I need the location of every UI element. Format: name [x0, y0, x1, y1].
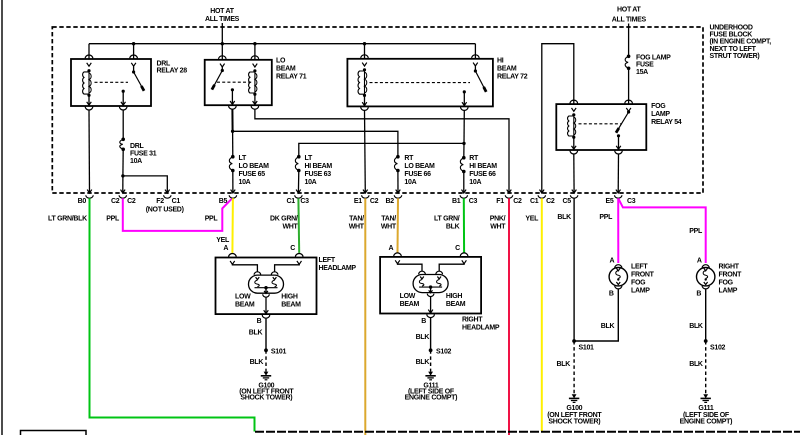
- svg-text:BLK: BLK: [416, 334, 430, 341]
- relay K71 switch terminal (top): [219, 56, 227, 59]
- fuse F31: DRL FUSE 31 10A: [121, 138, 125, 142]
- svg-text:HI BEAM: HI BEAM: [305, 163, 333, 170]
- pin B0: [87, 190, 92, 193]
- relay K54 switch: [627, 110, 630, 113]
- node: high-beam distribution junction: [462, 142, 465, 145]
- pin C1|C3: [296, 190, 301, 193]
- svg-text:BLK: BLK: [689, 323, 703, 330]
- node: splice S101 (fog circuit): [572, 339, 576, 343]
- wire: left headlamp B BLK to S101: [265, 319, 267, 351]
- svg-text:FUSE 66: FUSE 66: [404, 171, 431, 178]
- svg-text:LAMP: LAMP: [651, 111, 670, 118]
- svg-text:LEFT: LEFT: [319, 257, 336, 264]
- svg-text:10A: 10A: [404, 179, 416, 186]
- svg-text:B2: B2: [385, 198, 394, 205]
- svg-text:UNDERHOOD: UNDERHOOD: [710, 25, 753, 32]
- svg-text:ALL TIMES: ALL TIMES: [612, 17, 647, 24]
- svg-text:15A: 15A: [636, 69, 648, 76]
- svg-text:FUSE 66: FUSE 66: [469, 171, 496, 178]
- svg-text:C: C: [455, 245, 460, 252]
- wire: HI relay coil to pin E1: [364, 110, 367, 193]
- svg-text:WHT: WHT: [349, 224, 365, 231]
- svg-text:DRL: DRL: [157, 60, 172, 67]
- svg-text:LO BEAM: LO BEAM: [239, 163, 270, 170]
- svg-text:RELAY 72: RELAY 72: [497, 74, 528, 81]
- svg-text:BEAM: BEAM: [446, 301, 466, 308]
- svg-text:BEAM: BEAM: [276, 66, 296, 73]
- svg-text:(IN ENGINE COMPT,: (IN ENGINE COMPT,: [710, 39, 772, 46]
- svg-text:LO: LO: [276, 58, 286, 65]
- svg-text:NEXT TO LEFT: NEXT TO LEFT: [710, 46, 757, 53]
- svg-text:FRONT: FRONT: [631, 271, 655, 278]
- svg-text:C1: C1: [287, 198, 296, 205]
- svg-text:SHOCK TOWER): SHOCK TOWER): [548, 418, 600, 425]
- wire: fuse to fog relay switch: [628, 68, 630, 103]
- lamp: left headlamp box: [216, 258, 317, 315]
- relay K54 coil: [572, 113, 575, 116]
- wire: bus drop to LO relay switch: [221, 44, 223, 60]
- relay K28 box: DRL RELAY 28: [71, 59, 151, 106]
- right headlamp bulb: [413, 275, 448, 293]
- svg-text:LEFT: LEFT: [631, 263, 648, 270]
- svg-text:S101: S101: [271, 349, 287, 356]
- svg-text:A: A: [610, 258, 615, 265]
- wire: main power bus: [89, 43, 475, 45]
- wire: to RT HI BEAM fuse: [463, 143, 465, 157]
- junction dots on bus: [132, 42, 135, 45]
- svg-text:S102: S102: [436, 349, 452, 356]
- wire: BLK dashed to ground G111: [430, 350, 432, 371]
- svg-text:F2: F2: [156, 198, 164, 205]
- relay K72 switch terminal (top): [472, 55, 480, 58]
- fuse F65: LT LO BEAM FUSE 65 10A: [231, 155, 235, 159]
- left headlamp bulb: [249, 275, 284, 293]
- pin E1|C2: [363, 190, 368, 193]
- svg-text:STRUT TOWER): STRUT TOWER): [710, 53, 760, 60]
- wire: BLK dashed to ground G111 (fog): [705, 341, 707, 394]
- wire: DRL fuse to pin C2: [122, 149, 124, 176]
- svg-text:PPL: PPL: [205, 216, 219, 223]
- svg-text:BLK: BLK: [446, 224, 460, 231]
- svg-text:HOT AT: HOT AT: [617, 7, 641, 14]
- relay K54 switch terminal (top): [625, 100, 633, 103]
- node: splice S102: [429, 348, 433, 352]
- left headlamp bulb common wire: [265, 288, 267, 294]
- pin C1|C2: [540, 190, 545, 193]
- relay K54 box: FOG LAMP RELAY 54: [556, 104, 646, 150]
- svg-text:HI: HI: [497, 58, 504, 65]
- relay K72 switch: [474, 69, 477, 72]
- relay K28 coil wire to bottom: [88, 95, 90, 105]
- wire: left fog B BLK to S101 splice: [574, 289, 618, 341]
- ground G100 (left headlamp): [264, 372, 269, 376]
- wire: PNK/WHT from F1 (to lower section): [508, 198, 510, 435]
- right headlamp internal wires: [398, 263, 423, 271]
- relay K28 coil: [87, 69, 90, 72]
- svg-text:PPL: PPL: [599, 214, 613, 221]
- relay K54 switch output wire: [618, 136, 620, 149]
- svg-text:WHT: WHT: [490, 224, 506, 231]
- svg-text:RELAY 71: RELAY 71: [276, 74, 307, 81]
- wire: to LT LO BEAM fuse: [232, 131, 234, 156]
- svg-text:HOT AT: HOT AT: [210, 8, 234, 15]
- relay K28 switch: [132, 70, 135, 73]
- svg-text:HIGH: HIGH: [446, 293, 463, 300]
- wire: fog relay coil to pin C5 (ground path): [573, 154, 575, 193]
- svg-text:LT GRN/: LT GRN/: [434, 216, 460, 223]
- svg-text:RT: RT: [469, 155, 479, 162]
- relay K28 switch terminal (top): [130, 55, 138, 58]
- left page border line: [1, 0, 3, 435]
- svg-text:RIGHT: RIGHT: [719, 263, 740, 270]
- wire: TAN/WHT from B2 to right headlamp A: [397, 198, 400, 253]
- svg-text:FOG: FOG: [651, 103, 666, 110]
- wire: DK GRN/WHT from C1 to left headlamp C: [297, 198, 300, 253]
- relay K71 coil: [253, 69, 256, 72]
- svg-text:10A: 10A: [239, 179, 251, 186]
- svg-text:A: A: [389, 245, 394, 252]
- wire: BLK dashed to ground G100: [265, 350, 267, 371]
- svg-text:C1: C1: [172, 198, 181, 205]
- svg-text:ALL TIMES: ALL TIMES: [205, 16, 240, 23]
- svg-text:10A: 10A: [305, 179, 317, 186]
- ground G111 (fog circuit): [703, 394, 708, 398]
- pin B1|C3: [462, 190, 467, 193]
- fuse F66a: RT LO BEAM FUSE 66 10A: [396, 155, 400, 159]
- wire: branch to pin F2 (not used): [123, 176, 167, 193]
- svg-text:BLK: BLK: [557, 361, 571, 368]
- svg-text:FUSE BLOCK: FUSE BLOCK: [710, 32, 753, 39]
- svg-text:B: B: [421, 318, 426, 325]
- relay K72 switch output wire: [463, 92, 465, 106]
- relay K71 box: LO BEAM RELAY 71: [205, 60, 272, 105]
- svg-text:S102: S102: [710, 344, 726, 351]
- svg-text:LO BEAM: LO BEAM: [404, 163, 435, 170]
- wire: right headlamp B BLK to S102: [430, 318, 432, 350]
- wire: bus drop to HI relay switch: [474, 44, 476, 59]
- svg-text:BEAM: BEAM: [281, 301, 301, 308]
- node: junction to F2: [121, 174, 124, 177]
- wire: LO relay coil to F1 pin (PNK/WHT feed): [255, 109, 509, 193]
- svg-text:HI BEAM: HI BEAM: [469, 163, 497, 170]
- svg-text:FOG LAMP: FOG LAMP: [636, 54, 671, 61]
- svg-text:BEAM: BEAM: [400, 301, 420, 308]
- svg-text:PNK/: PNK/: [490, 216, 506, 223]
- svg-text:C1: C1: [530, 198, 539, 205]
- svg-text:FUSE 31: FUSE 31: [130, 151, 157, 158]
- wire: PPL from E5 to right fog lamp A: [618, 199, 705, 263]
- node: low-beam distribution junction: [231, 130, 234, 133]
- svg-text:LOW: LOW: [235, 294, 251, 301]
- node: splice S101: [264, 348, 268, 352]
- pin F2|C1 (not used): [165, 190, 170, 193]
- svg-text:LT: LT: [305, 155, 313, 162]
- svg-text:PPL: PPL: [106, 216, 120, 223]
- svg-text:RELAY 54: RELAY 54: [651, 119, 682, 126]
- svg-text:S101: S101: [579, 344, 595, 351]
- wire: left hot feed drop: [221, 23, 223, 44]
- wire: LT GRN/BLK from B0 (to lower section): [90, 198, 255, 431]
- relay K54 linkage (dashed): [579, 123, 623, 125]
- pin C2|C2: [121, 190, 126, 193]
- wire: bus drop to LO relay coil: [254, 44, 256, 60]
- fuse: FOG LAMP FUSE 15A: [627, 55, 631, 59]
- next section: partial box bottom-left: [21, 431, 87, 435]
- svg-text:F1: F1: [496, 198, 504, 205]
- svg-text:LT: LT: [239, 155, 247, 162]
- wire: bus drop to DRL relay switch: [133, 44, 135, 59]
- svg-text:BLK: BLK: [689, 361, 703, 368]
- svg-text:B0: B0: [78, 198, 87, 205]
- next section: bus line at bottom: [255, 431, 800, 433]
- svg-text:BLK: BLK: [601, 323, 615, 330]
- relay K71 linkage (dashed): [217, 81, 252, 83]
- svg-text:C3: C3: [627, 198, 636, 205]
- wire: branch to RT LO BEAM fuse: [233, 131, 398, 156]
- svg-text:HIGH: HIGH: [281, 294, 298, 301]
- svg-text:DRL: DRL: [130, 143, 145, 150]
- svg-text:BLK: BLK: [250, 359, 264, 366]
- wire: YEL from B5 to left headlamp A: [231, 198, 234, 253]
- svg-text:PPL: PPL: [689, 228, 703, 235]
- svg-text:A: A: [223, 245, 228, 252]
- svg-text:(NOT USED): (NOT USED): [146, 206, 184, 213]
- svg-text:B1: B1: [452, 198, 461, 205]
- svg-text:BLK: BLK: [249, 329, 263, 336]
- svg-text:C2: C2: [111, 198, 120, 205]
- svg-text:FRONT: FRONT: [719, 271, 743, 278]
- svg-text:WHT: WHT: [381, 224, 397, 231]
- wire: right fog B BLK to S102: [705, 289, 707, 341]
- pin C5: [572, 190, 577, 193]
- svg-text:YEL: YEL: [525, 216, 539, 223]
- wire: PPL from C2 joining B5: [123, 198, 232, 231]
- svg-text:E1: E1: [354, 198, 362, 205]
- wire: branch to LT HI BEAM fuse: [299, 143, 464, 156]
- svg-text:LAMP: LAMP: [631, 287, 650, 294]
- wire: YEL from C1/C2 (to lower section): [541, 198, 543, 431]
- ground G111 (right headlamp): [428, 372, 433, 376]
- wire: BLK dashed to ground G100 (fog): [573, 341, 575, 394]
- svg-text:BLK: BLK: [557, 214, 571, 221]
- relay K71 switch: [221, 69, 224, 72]
- wire: right hot feed drop to fog lamp fuse: [628, 24, 630, 57]
- relay K71 switch output wire: [231, 90, 233, 105]
- relay K72 coil terminal (top): [361, 55, 369, 58]
- svg-text:E5: E5: [606, 198, 614, 205]
- left headlamp internal wires: [232, 264, 257, 272]
- svg-text:LAMP: LAMP: [719, 287, 738, 294]
- pin E5|C3: [616, 190, 621, 193]
- svg-text:C2: C2: [127, 198, 136, 205]
- svg-text:FOG: FOG: [719, 279, 734, 286]
- svg-text:C2: C2: [513, 198, 522, 205]
- wire: bus drop to DRL relay coil: [88, 44, 90, 59]
- svg-text:10A: 10A: [469, 179, 481, 186]
- svg-text:FUSE 63: FUSE 63: [305, 171, 332, 178]
- lamp: right headlamp box: [380, 257, 481, 314]
- svg-text:TAN/: TAN/: [349, 216, 364, 223]
- svg-text:RELAY 28: RELAY 28: [157, 68, 188, 75]
- svg-text:WHT: WHT: [282, 224, 298, 231]
- wire: LO relay switch output down: [231, 109, 233, 131]
- pin B5: [231, 190, 236, 193]
- relay K72 box: HI BEAM RELAY 72: [347, 59, 493, 107]
- wire: LT GRN/BLK from B1 to right headlamp C: [463, 198, 465, 253]
- fuse F66b: RT HI BEAM FUSE 66 10A: [462, 156, 466, 160]
- svg-text:HEADLAMP: HEADLAMP: [319, 265, 357, 272]
- svg-text:B: B: [609, 291, 614, 298]
- wire: DRL relay switch to DRL fuse: [122, 110, 124, 139]
- relay K28 switch output wire: [122, 91, 124, 105]
- svg-text:C3: C3: [300, 198, 309, 205]
- svg-text:B: B: [696, 291, 701, 298]
- svg-text:FUSE: FUSE: [636, 62, 654, 69]
- svg-text:BLK: BLK: [416, 359, 430, 366]
- fuse F63: LT HI BEAM FUSE 63 10A: [297, 155, 301, 159]
- svg-text:A: A: [697, 258, 702, 265]
- svg-text:TAN/: TAN/: [381, 216, 396, 223]
- svg-text:SHOCK TOWER): SHOCK TOWER): [240, 395, 292, 402]
- svg-text:RIGHT: RIGHT: [462, 317, 483, 324]
- relay K72 linkage (dashed): [370, 82, 471, 84]
- svg-text:C5: C5: [563, 198, 572, 205]
- svg-text:C: C: [290, 245, 295, 252]
- wire: fog relay coil feed from C1/C2 yellow pin: [542, 44, 574, 193]
- svg-text:DK GRN/: DK GRN/: [270, 216, 298, 223]
- svg-text:C2: C2: [370, 198, 379, 205]
- wire: DRL relay coil to pin B0: [88, 110, 91, 193]
- relay K54 coil terminal (top): [570, 100, 578, 103]
- svg-text:ENGINE COMPT): ENGINE COMPT): [680, 418, 733, 425]
- svg-text:C3: C3: [469, 198, 478, 205]
- wire: fog relay switch to pin E5: [617, 154, 619, 193]
- wire: BLK from C5 to S101 splice: [573, 198, 575, 341]
- right headlamp bulb common wire: [430, 287, 432, 293]
- pin B2: [396, 190, 401, 193]
- svg-text:HEADLAMP: HEADLAMP: [462, 324, 500, 331]
- svg-text:LOW: LOW: [400, 293, 416, 300]
- ground G100 (fog circuit): [572, 394, 577, 398]
- wire: bus drop to HI relay coil: [364, 44, 366, 59]
- svg-text:RT: RT: [404, 155, 414, 162]
- svg-text:YEL: YEL: [216, 237, 230, 244]
- wire: PPL from E5 to left fog lamp A: [617, 198, 619, 263]
- svg-text:B: B: [257, 318, 262, 325]
- pin F1|C2: [507, 190, 512, 193]
- svg-text:FOG: FOG: [631, 279, 646, 286]
- relay K72 coil: [363, 68, 366, 71]
- svg-text:BEAM: BEAM: [497, 66, 517, 73]
- svg-text:ENGINE COMPT): ENGINE COMPT): [405, 395, 458, 402]
- svg-text:10A: 10A: [130, 158, 142, 165]
- svg-text:FUSE 65: FUSE 65: [239, 171, 266, 178]
- wire: TAN/WHT from E1 (to lower section): [364, 198, 366, 435]
- svg-text:C2: C2: [546, 198, 555, 205]
- relay K28 coil terminal (top): [85, 55, 93, 58]
- node: splice S102 (fog circuit): [704, 339, 708, 343]
- svg-text:LT GRN/BLK: LT GRN/BLK: [48, 216, 87, 223]
- wire: HI relay switch output down: [463, 110, 465, 143]
- relay K28 linkage (dashed): [95, 81, 129, 83]
- relay K71 coil terminal (top): [251, 56, 259, 59]
- svg-text:BEAM: BEAM: [235, 301, 255, 308]
- underhood fuse block dashed box: [52, 27, 703, 193]
